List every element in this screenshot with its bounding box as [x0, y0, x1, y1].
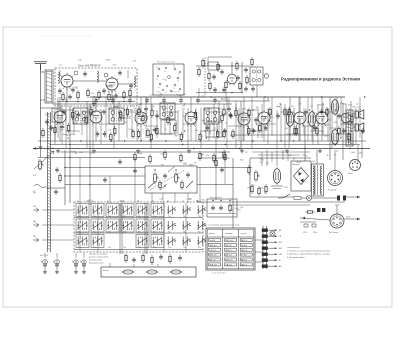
wire bus3 [60, 151, 230, 153]
svg-text:0,25: 0,25 [145, 116, 149, 118]
capacitor C33 [77, 112, 81, 118]
svg-text:220в: 220в [335, 205, 340, 207]
socket pin dots [158, 68, 160, 70]
svg-text:470к: 470к [219, 152, 223, 154]
svg-text:Л7: Л7 [156, 67, 158, 69]
svg-text:АМ: АМ [279, 265, 282, 268]
svg-text:ДВ: ДВ [279, 230, 282, 232]
resistor Rx7 [269, 107, 271, 117]
electrolytic C91 [53, 259, 59, 270]
capacitor C20 [244, 67, 248, 73]
resistor R47 [194, 110, 196, 120]
svg-text:1М: 1М [124, 122, 127, 124]
svg-text:15к: 15к [291, 106, 294, 108]
svg-text:R9: R9 [161, 165, 163, 167]
svg-text:R7: R7 [245, 152, 247, 154]
svg-text:С31: С31 [76, 114, 79, 116]
svg-text:1М: 1М [111, 96, 114, 98]
resistor R51 [223, 129, 225, 139]
resistor R32 [72, 110, 74, 120]
resistor R87 [265, 184, 267, 194]
svg-text:56к: 56к [265, 130, 268, 132]
gap parts 222-242 [223, 107, 225, 117]
svg-text:Др1: Др1 [130, 109, 133, 111]
tone control block outline [145, 166, 197, 193]
svg-text:1000: 1000 [351, 152, 355, 154]
wire stair 4 [65, 184, 145, 186]
resistor R2 [87, 88, 89, 98]
svg-text:R31: R31 [201, 200, 204, 202]
capacitor C19 [222, 87, 226, 93]
tube row top wires [59, 97, 61, 110]
svg-text:1000: 1000 [348, 105, 352, 107]
speaker B2 [355, 123, 364, 132]
capacitor C85 [179, 98, 183, 104]
svg-text:В1: В1 [293, 159, 295, 161]
wire phono [46, 187, 65, 189]
svg-text:С44: С44 [110, 110, 113, 112]
capacitor C62 [342, 128, 346, 134]
tube Л8 6Н2П [258, 110, 271, 127]
svg-text:С33: С33 [170, 133, 173, 135]
svg-text:П4г: П4г [138, 216, 141, 218]
UKV coil L4 [134, 76, 135, 87]
svg-text:6И1П: 6И1П [71, 151, 76, 153]
terminal pin 5 [262, 253, 268, 256]
svg-text:П4г: П4г [168, 232, 171, 234]
matrix long verticals [79, 203, 81, 252]
dial lamp [147, 270, 157, 274]
dial lamp [123, 270, 133, 274]
svg-text:В4: В4 [182, 201, 184, 203]
magic eye tube Л14 [273, 167, 280, 185]
wire antenna tap [41, 107, 56, 109]
svg-text:0,01: 0,01 [224, 113, 228, 115]
svg-text:включенному: включенному [89, 260, 101, 262]
svg-text:6К4П: 6К4П [297, 162, 302, 164]
svg-text:клавиши: клавиши [225, 233, 232, 235]
wire down from cluster [267, 97, 269, 101]
svg-text:УКВ 7-8: УКВ 7-8 [209, 265, 217, 267]
svg-text:0,05: 0,05 [56, 109, 60, 111]
capacitor C10 [118, 70, 122, 76]
svg-text:Др1: Др1 [179, 95, 182, 97]
power switch S2 [283, 194, 290, 198]
resistor R75 [213, 153, 215, 163]
svg-text:6И1П: 6И1П [66, 135, 71, 137]
UKV low parts [62, 92, 64, 102]
svg-text:В4: В4 [92, 201, 94, 203]
mains wires [250, 196, 294, 198]
resistor R85 [251, 184, 253, 194]
switch S9 [198, 206, 206, 215]
svg-text:С31: С31 [138, 108, 141, 110]
svg-text:П1в: П1в [108, 232, 111, 234]
svg-text:C27: C27 [74, 87, 77, 89]
svg-text:R7: R7 [130, 106, 132, 108]
svg-text:П2а: П2а [93, 232, 96, 234]
svg-text:В6: В6 [107, 201, 109, 203]
svg-text:П1в: П1в [183, 247, 186, 249]
capacitor Cb4 [159, 254, 163, 260]
svg-text:Радиоприемники и радиола Эстон: Радиоприемники и радиола Эстония [281, 76, 360, 81]
svg-text:R22: R22 [342, 114, 345, 116]
UKV wires [57, 101, 135, 103]
phono connector X2 [350, 160, 361, 171]
mid column x216 [215, 137, 217, 200]
svg-text:6И1П: 6И1П [324, 125, 329, 127]
output tube Л12 oval [286, 110, 293, 128]
svg-text:Л5: Л5 [264, 193, 266, 195]
svg-text:С44: С44 [217, 133, 220, 135]
capacitor Cx6 [254, 117, 258, 123]
svg-text:С44: С44 [218, 109, 221, 111]
volume pot R60 [39, 159, 44, 171]
switch S7 [168, 206, 176, 215]
svg-text:C27: C27 [59, 65, 62, 67]
resistor Rx18 [85, 115, 87, 125]
vertical feed x65 [64, 150, 66, 205]
resistor R45 [174, 123, 176, 133]
resistor R40 [126, 107, 128, 117]
IF transformer T1 [250, 67, 263, 85]
capacitor C60 [319, 109, 323, 115]
svg-text:0,5: 0,5 [33, 175, 37, 177]
svg-text:100: 100 [45, 115, 48, 117]
switch S19 [76, 235, 89, 248]
svg-text:С33: С33 [337, 107, 340, 109]
aux pins [317, 208, 320, 212]
capacitor Cb6 [178, 255, 182, 261]
left band markers [33, 208, 39, 212]
svg-text:510: 510 [195, 130, 198, 132]
svg-text:220в: 220в [346, 217, 350, 219]
switch S17 [183, 221, 191, 230]
tube Л7 6Н2П [238, 111, 251, 128]
tuning knob circle [264, 74, 268, 78]
switch S11 [91, 219, 104, 232]
tube L1a 6Н3П [61, 73, 74, 90]
svg-text:ДВ 1-3: ДВ 1-3 [241, 265, 248, 267]
capacitor C81 [111, 98, 115, 104]
svg-text:С18: С18 [286, 124, 289, 126]
svg-text:КВ1: КВ1 [279, 242, 282, 244]
svg-text:R7: R7 [268, 120, 270, 122]
svg-text:Л8: Л8 [179, 135, 181, 137]
tube L1b 6Н3П [106, 76, 119, 93]
wire y158 segment [250, 157, 311, 159]
capacitor Cx16 [45, 119, 49, 125]
tube Л6 6Х2П [185, 110, 198, 127]
svg-text:220к: 220к [260, 188, 264, 190]
terminal pin 6 [262, 259, 268, 262]
svg-text:470к: 470к [71, 134, 75, 136]
wire ant to stair [40, 149, 42, 158]
capacitor Cx1 [155, 113, 159, 119]
svg-text:Зв 8-9: Зв 8-9 [241, 255, 248, 257]
wires table-ladder [255, 239, 263, 241]
switch S13 [121, 219, 134, 232]
electrolytic C92 [72, 259, 78, 270]
svg-text:П2а: П2а [183, 232, 186, 234]
svg-text:220к: 220к [234, 208, 238, 210]
trimmer C13 [104, 73, 108, 77]
svg-text:В8: В8 [167, 201, 169, 203]
switch S3 [106, 204, 119, 217]
wire +250V rail [90, 96, 345, 98]
capacitor C25 [244, 86, 248, 92]
svg-text:СВ: СВ [33, 206, 37, 208]
resistor R31 [67, 123, 69, 133]
svg-text:R31: R31 [307, 122, 310, 124]
svg-text:0,5: 0,5 [50, 122, 53, 124]
svg-text:15к: 15к [206, 155, 209, 157]
resistor R61 [338, 126, 340, 136]
capacitor Cx14 [337, 113, 341, 119]
resistor R61 [59, 173, 61, 183]
svg-text:С31: С31 [334, 128, 337, 130]
svg-text:С18: С18 [160, 153, 163, 155]
svg-text:R9: R9 [72, 119, 74, 121]
svg-text:КВ1 5-6: КВ1 5-6 [209, 245, 217, 247]
svg-text:2,2к: 2,2к [108, 129, 112, 131]
svg-text:Зв 8-9: Зв 8-9 [241, 245, 248, 247]
svg-text:R22: R22 [202, 96, 205, 98]
svg-text:C27: C27 [266, 163, 269, 165]
resistor R14 [198, 67, 200, 77]
svg-text:Расположение ламп: Расположение ламп [157, 62, 175, 64]
fuse F1 [294, 197, 301, 200]
trimmer C12 [74, 71, 78, 75]
svg-text:Л4: Л4 [108, 136, 110, 138]
speaker B1 [355, 110, 364, 119]
capacitor C56 [264, 125, 268, 131]
svg-text:2. Добавочн. сопротивления под: 2. Добавочн. сопротивления подключ. выхо… [287, 254, 331, 256]
matrix horizontal links [74, 217, 203, 219]
resistor R72 [164, 150, 166, 160]
contact group box [207, 199, 237, 217]
svg-text:R14: R14 [328, 120, 331, 122]
svg-text:Л1: Л1 [158, 87, 160, 89]
table cells [209, 238, 221, 241]
svg-text:С31: С31 [252, 185, 255, 187]
capacitor C24 [251, 86, 255, 92]
tone pot R63 [175, 172, 180, 184]
svg-text:220в: 220в [313, 232, 317, 234]
svg-text:2,2к: 2,2к [88, 107, 92, 109]
electrolytic C93 [80, 259, 86, 270]
svg-text:56к: 56к [359, 114, 362, 116]
switch S15 [151, 219, 164, 232]
resistor R5 [129, 88, 131, 98]
capacitor C35 [96, 131, 100, 137]
svg-text:Л8: Л8 [225, 122, 227, 124]
svg-text:6К4П: 6К4П [72, 116, 77, 118]
svg-text:Тр2: Тр2 [312, 161, 315, 163]
aux connector right stub [344, 218, 360, 220]
rectifier block outline [291, 161, 311, 191]
junction dots UKV [66, 101, 67, 102]
dial scale band [47, 112, 49, 252]
tube socket layout box [153, 64, 184, 95]
svg-text:ДВ 1-3: ДВ 1-3 [241, 260, 248, 262]
svg-text:Л8: Л8 [277, 106, 279, 108]
svg-text:0,01: 0,01 [133, 61, 137, 63]
resistor R76 [223, 150, 225, 160]
svg-text:1М: 1М [285, 128, 288, 130]
svg-text:R31: R31 [353, 107, 356, 109]
vertical feed x233 [232, 158, 234, 228]
svg-text:диапаз.: диапаз. [209, 233, 216, 235]
resistor R3 [98, 90, 100, 100]
svg-text:0,25: 0,25 [150, 95, 154, 97]
resistor Rx5 [248, 108, 250, 118]
svg-text:Л4: Л4 [292, 122, 294, 124]
svg-text:Фоно: Фоно [348, 172, 353, 175]
capacitor Cx19 [102, 109, 106, 115]
svg-text:100: 100 [158, 96, 161, 98]
svg-text:Л1: Л1 [178, 91, 180, 93]
svg-text:R14: R14 [160, 107, 163, 109]
svg-text:Л5: Л5 [313, 127, 315, 129]
capacitor C36 [103, 131, 107, 137]
switch position table outline [206, 228, 255, 270]
svg-text:R22: R22 [284, 187, 287, 189]
svg-text:П1в: П1в [93, 247, 96, 249]
svg-text:0,25: 0,25 [98, 110, 102, 112]
capacitor Cx11 [304, 109, 308, 115]
capacitor C11 [129, 83, 133, 89]
tone gang dashed [150, 170, 185, 190]
svg-text:C27: C27 [357, 107, 360, 109]
svg-text:6И1П: 6И1П [189, 165, 194, 167]
tone block caps [163, 173, 167, 179]
switch S2 [91, 204, 104, 217]
resistor R50 [216, 129, 218, 139]
stair junction dots [64, 167, 65, 168]
svg-text:6К4П: 6К4П [114, 106, 119, 108]
svg-text:2,2к: 2,2к [90, 93, 94, 95]
strip wires [109, 263, 111, 267]
table header separators [207, 236, 255, 238]
svg-text:П1в: П1в [78, 247, 81, 249]
capacitor C80 [94, 98, 98, 104]
svg-text:Л7: Л7 [177, 81, 179, 83]
svg-text:1М: 1М [270, 117, 273, 119]
svg-text:Зв2 (мото): Зв2 (мото) [329, 232, 339, 234]
svg-text:Дбл контакты: Дбл контакты [210, 197, 222, 199]
svg-text:R9: R9 [334, 155, 336, 157]
svg-text:П1в: П1в [138, 232, 141, 234]
resistor Rb0 [125, 253, 127, 263]
svg-text:Л8: Л8 [359, 109, 361, 111]
svg-text:С18: С18 [183, 163, 186, 165]
svg-text:R14: R14 [78, 60, 81, 62]
svg-text:П3б: П3б [108, 216, 111, 218]
resistor R95 [305, 211, 315, 213]
svg-text:0,25: 0,25 [90, 153, 94, 155]
svg-text:0,5: 0,5 [356, 104, 359, 106]
vertical feed x241 [240, 101, 242, 150]
wire to aux connector [300, 218, 330, 220]
resistor R70 [134, 152, 136, 162]
svg-text:П3б: П3б [138, 247, 141, 249]
svg-text:П4г: П4г [198, 232, 201, 234]
svg-text:дано в соответствии: дано в соответствии [89, 257, 108, 259]
svg-text:15к: 15к [298, 122, 301, 124]
svg-text:30,0 30,0: 30,0 30,0 [40, 255, 48, 257]
resistor R39 [120, 110, 122, 120]
svg-text:СВ: СВ [279, 236, 282, 238]
capacitor C8 [83, 71, 87, 77]
resistor R17 [239, 81, 241, 91]
svg-text:П4г: П4г [123, 216, 126, 218]
wire stair right 2 [197, 184, 233, 186]
svg-text:КВ: КВ [33, 236, 36, 238]
svg-text:1000: 1000 [324, 136, 328, 138]
svg-text:КВ1 5-6: КВ1 5-6 [209, 255, 217, 257]
svg-text:П2а: П2а [123, 247, 126, 249]
svg-text:П4г: П4г [153, 232, 156, 234]
switch S4 [121, 204, 134, 217]
resistor R1 [77, 90, 79, 100]
svg-text:Л1: Л1 [156, 79, 158, 81]
tube Л10 [316, 110, 329, 127]
verticals power [249, 158, 251, 197]
svg-text:6К4П: 6К4П [107, 85, 112, 87]
resistor R53 [248, 126, 250, 136]
wire y205 right [230, 204, 310, 206]
svg-text:127в: 127в [303, 232, 307, 234]
svg-text:П2а: П2а [108, 247, 111, 249]
ground [318, 149, 322, 153]
capacitor C64 [361, 128, 365, 134]
resistor Rx13 [326, 107, 328, 117]
output tube Л13 oval [308, 110, 315, 128]
resistor R38 [114, 126, 116, 136]
ground electrolytics [43, 270, 47, 274]
switch S8 [183, 206, 191, 215]
svg-text:510: 510 [260, 162, 263, 164]
wire AM АЧХ [196, 100, 270, 102]
svg-text:6И1П: 6И1П [247, 131, 252, 133]
wire stair 1 [38, 157, 145, 159]
svg-text:0,01: 0,01 [260, 160, 264, 162]
resistor R37 [110, 132, 112, 142]
wire stair 3 [65, 175, 145, 177]
svg-text:П1в: П1в [198, 216, 201, 218]
svg-text:АЧХ: АЧХ [221, 98, 226, 101]
svg-text:П1в: П1в [153, 216, 156, 218]
power extra wires [252, 151, 310, 153]
switch S14 [136, 219, 149, 232]
resistor R57 [288, 107, 290, 117]
switch S23 [168, 237, 176, 246]
capacitor C7 [71, 87, 75, 93]
capacitor C18 [212, 74, 216, 80]
svg-text:С44: С44 [241, 120, 244, 122]
svg-text:Зв: Зв [279, 260, 281, 262]
ground [187, 149, 191, 153]
resistor R58 [295, 126, 297, 136]
svg-text:220к: 220к [251, 129, 255, 131]
svg-text:56к: 56к [160, 94, 163, 96]
svg-text:510: 510 [113, 65, 116, 67]
resistor R73 [180, 153, 182, 163]
svg-text:Др1: Др1 [202, 120, 205, 122]
svg-text:П3б: П3б [78, 216, 81, 218]
svg-text:R22: R22 [245, 119, 248, 121]
